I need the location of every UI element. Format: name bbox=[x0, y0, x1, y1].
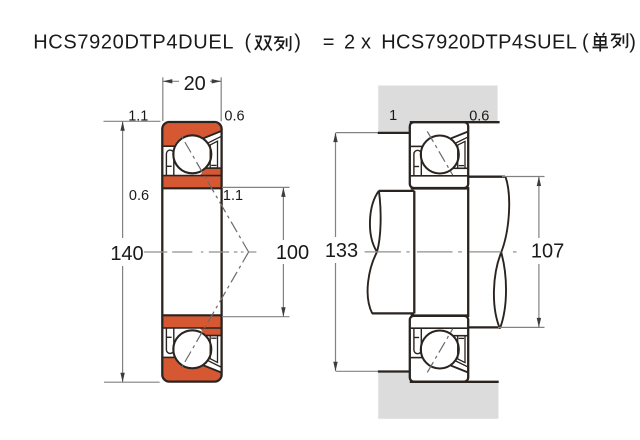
svg-text:107: 107 bbox=[531, 241, 564, 263]
left bearing outer+inner ring orange section (top) bbox=[163, 123, 221, 188]
svg-text:100: 100 bbox=[276, 242, 309, 264]
dimension 20: extension and dimension lines bbox=[163, 77, 221, 121]
svg-text:1.1: 1.1 bbox=[128, 108, 148, 124]
dimension 133 bottom arrowhead bbox=[333, 362, 337, 372]
left drawing horizontal centerline (dash-dot) bbox=[144, 251, 257, 253]
svg-text:x: x bbox=[361, 32, 371, 54]
contact-angle diagonals through balls (right drawing) bbox=[427, 131, 452, 372]
housing block bottom (grey, with abutment shoulder step) bbox=[378, 372, 498, 419]
svg-text:133: 133 bbox=[325, 240, 358, 262]
dimension 133: extension and dimension lines bbox=[336, 133, 379, 372]
shaft and shoulder straight edges bbox=[372, 177, 505, 328]
left bearing top section: ball, cage and raceway lines bbox=[163, 131, 221, 188]
svg-text:HCS7920DTP4SUEL: HCS7920DTP4SUEL bbox=[381, 32, 577, 54]
left bearing outer+inner ring orange section (bottom, mirrored) bbox=[163, 315, 221, 380]
left bearing outline bbox=[162, 122, 221, 382]
housing bore and shoulder edge lines bbox=[378, 122, 500, 382]
svg-text:0.6: 0.6 bbox=[469, 108, 489, 124]
title CJK char 列 bbox=[274, 36, 290, 51]
contact-angle diagonal lines meeting at apex (left drawing) bbox=[181, 135, 249, 370]
right bearing bottom section outline bbox=[410, 316, 468, 382]
svg-text:140: 140 bbox=[110, 243, 143, 265]
dimension 133 top arrowhead bbox=[333, 133, 337, 143]
dimension 107: extension and dimension lines bbox=[498, 177, 545, 328]
shaft axis centerline (dash-dot) bbox=[365, 251, 517, 253]
svg-text:HCS7920DTP4DUEL: HCS7920DTP4DUEL bbox=[33, 32, 234, 54]
housing block top (grey, with abutment shoulder step) bbox=[378, 86, 497, 133]
dimension 107 top arrowhead bbox=[537, 177, 541, 187]
dimension 140 bottom arrowhead bbox=[120, 373, 124, 383]
dimension 100: extension and dimension lines bbox=[222, 187, 290, 316]
title CJK char 单 bbox=[593, 33, 608, 52]
dimension 20 left arrowhead bbox=[163, 79, 173, 83]
svg-text:2: 2 bbox=[344, 32, 355, 54]
svg-text:0.6: 0.6 bbox=[224, 108, 244, 124]
dimension 20 right arrowhead bbox=[212, 79, 222, 83]
dimension 100 bottom arrowhead bbox=[281, 307, 285, 317]
dimension 100 top arrowhead bbox=[281, 187, 285, 197]
title CJK char 列 (second) bbox=[611, 33, 627, 48]
right bearing bottom section: ball, cage and raceway lines (mirrored) bbox=[411, 316, 469, 373]
svg-text:): ) bbox=[629, 32, 636, 54]
right bearing top section outline bbox=[410, 122, 468, 188]
svg-text:(: ( bbox=[245, 32, 252, 54]
dimension 107 bottom arrowhead bbox=[537, 318, 541, 328]
left bearing body white fill bbox=[162, 122, 221, 382]
svg-text:0.6: 0.6 bbox=[129, 188, 149, 204]
svg-text:1: 1 bbox=[389, 108, 397, 124]
dimension 140: extension and dimension lines bbox=[104, 121, 161, 382]
svg-text:20: 20 bbox=[184, 73, 206, 95]
svg-text:=: = bbox=[323, 32, 335, 54]
dimension 140 top arrowhead bbox=[120, 121, 124, 131]
title CJK char 双 bbox=[255, 36, 272, 50]
svg-text:1.1: 1.1 bbox=[223, 188, 243, 204]
right bearing top section: ball, cage and raceway lines bbox=[411, 132, 469, 189]
svg-text:(: ( bbox=[582, 32, 589, 54]
left bearing bottom section: ball, cage and raceway lines (mirrored) bbox=[163, 315, 221, 372]
shaft break curves (left end lens, right shoulder S-curve) bbox=[368, 177, 510, 329]
svg-text:): ) bbox=[294, 32, 301, 54]
